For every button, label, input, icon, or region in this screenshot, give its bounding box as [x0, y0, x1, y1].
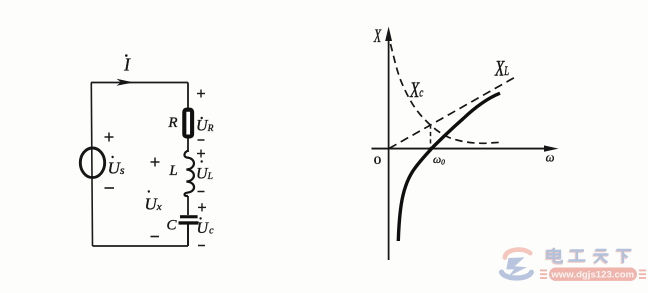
XL line	[389, 76, 518, 149]
omega0 dashed tick	[430, 125, 432, 149]
wire right upper	[187, 83, 189, 110]
label UC	[197, 217, 215, 237]
svg-text:C: C	[166, 218, 177, 234]
svg-text:0: 0	[374, 153, 382, 166]
svg-text:L: L	[168, 163, 177, 179]
plus of US	[105, 133, 114, 142]
Xc curve	[391, 44, 503, 143]
label UL	[196, 160, 213, 182]
wire bottom	[93, 245, 189, 247]
watermark logo top crescent	[505, 250, 530, 258]
wire C to bottom	[187, 224, 189, 246]
inductor L	[184, 151, 194, 197]
label UR	[196, 117, 214, 135]
svg-text:ω: ω	[546, 151, 555, 165]
watermark pill left marks	[540, 270, 547, 278]
svg-text:X: X	[373, 27, 382, 47]
plus of UL	[197, 150, 205, 158]
watermark char xia	[616, 251, 631, 264]
wire top	[91, 82, 188, 84]
svg-text:R: R	[167, 115, 177, 131]
wire L to C	[187, 196, 189, 215]
X curve solid	[398, 93, 500, 241]
svg-text:I: I	[123, 55, 131, 75]
minus of UL	[198, 191, 205, 193]
label UX	[145, 190, 162, 213]
source US	[80, 148, 104, 178]
wire left	[91, 83, 92, 247]
watermark logo bottom crescent	[502, 272, 532, 278]
watermark pill right marks	[639, 270, 646, 278]
y axis	[385, 27, 392, 261]
plus of UX	[151, 158, 160, 167]
plus of UC	[198, 203, 206, 211]
label US	[108, 156, 125, 178]
watermark char dian	[547, 249, 561, 263]
watermark logo bolt	[506, 257, 527, 276]
x axis	[372, 145, 559, 151]
capacitor C	[179, 215, 199, 224]
minus of UR	[198, 139, 205, 141]
current arrow I	[117, 54, 134, 86]
watermark char tian	[593, 251, 608, 264]
minus of UX	[151, 236, 160, 238]
minus of UC	[198, 245, 205, 247]
wire R to L	[187, 138, 189, 152]
watermark url pill	[549, 268, 637, 281]
watermark char gong	[568, 252, 585, 262]
resistor R	[184, 110, 192, 137]
svg-text:www.dgjs123.com: www.dgjs123.com	[550, 270, 634, 281]
plus of UR	[197, 90, 205, 98]
minus of US	[105, 187, 115, 189]
